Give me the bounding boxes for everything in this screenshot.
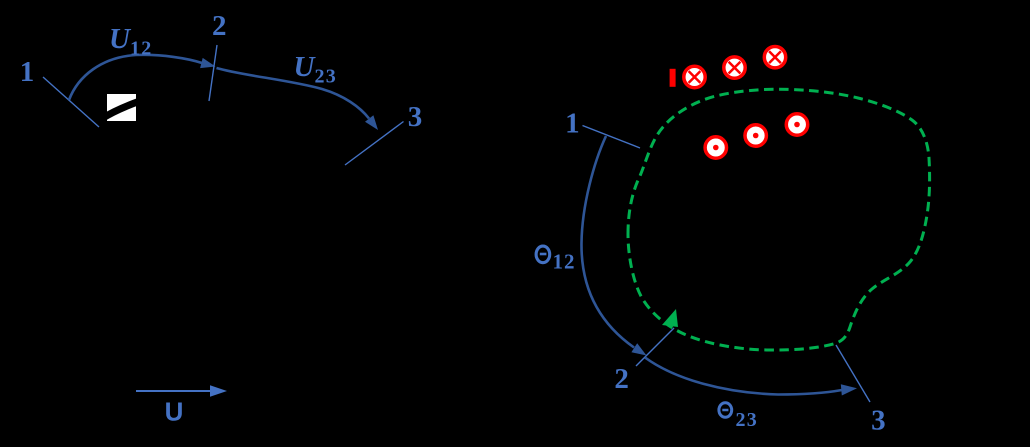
svg-text:1: 1 [565,107,580,139]
arrowhead Theta12 [631,343,646,355]
MMF arrow Theta12 [581,136,634,348]
current into page symbol B [724,57,745,78]
label Theta23 [719,403,732,418]
current out of page symbol F [786,114,807,135]
current label I (red) [670,69,676,87]
label Theta12 [536,246,550,263]
flux direction arrow shaft [136,390,213,392]
current into page symbol C [764,47,785,68]
loop direction arrowhead (green) [662,309,678,327]
arrowhead U23 [365,115,378,130]
arrowhead U12 [200,58,215,68]
flux direction arrowhead [210,385,227,396]
MMF arrow Theta23 [645,358,842,395]
current out of page symbol E [745,125,766,146]
current into page symbol A [684,66,705,87]
white patch [107,94,136,121]
field line segment crossing patch [102,101,140,119]
svg-text:3: 3 [871,405,886,437]
svg-text:3: 3 [408,101,423,133]
svg-text:1: 1 [20,56,35,88]
magnetic voltage arrow U23 [217,68,370,119]
wire: leader line of node 1 (right) [583,126,641,149]
wire: leader line of node 1 [43,77,99,127]
svg-text:U: U [165,397,184,427]
svg-text:2: 2 [614,363,629,395]
svg-text:23: 23 [736,409,759,431]
wire: leader line of node 2 (right) [636,328,674,366]
svg-text:12: 12 [553,250,576,274]
node 2 tick line [209,45,217,101]
node 3 tick line [345,122,404,166]
wire: leader line of node 3 (right) [836,345,870,402]
magnetic voltage arrow U12 [69,55,202,100]
Ampere loop (green dashed) [628,89,930,350]
arrowhead Theta23 [841,384,857,395]
current out of page symbol D [705,137,726,158]
svg-text:2: 2 [212,10,227,42]
